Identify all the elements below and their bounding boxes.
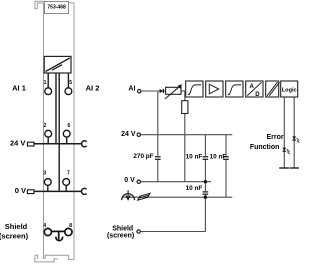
svg-text:8: 8 [69,223,72,229]
svg-text:Shield: Shield [5,222,28,231]
svg-text:Shield: Shield [112,226,133,233]
svg-text:24 V: 24 V [10,138,25,147]
svg-text:0 V: 0 V [15,186,26,195]
svg-text:5: 5 [69,80,72,86]
svg-text:AI 2: AI 2 [86,83,100,92]
svg-text:(screen): (screen) [107,233,134,240]
svg-text:3: 3 [43,171,46,177]
svg-text:7: 7 [67,171,70,177]
svg-text:A: A [250,84,255,90]
svg-text:24 V: 24 V [121,131,136,138]
svg-text:AI 1: AI 1 [12,83,26,92]
svg-text:1: 1 [44,80,47,86]
svg-text:D: D [255,92,260,98]
svg-text:10 nF: 10 nF [210,154,227,161]
svg-text:270 pF: 270 pF [133,153,153,160]
svg-text:(screen): (screen) [0,232,29,241]
svg-text:10 nF: 10 nF [186,185,203,192]
svg-text:AI: AI [128,86,135,93]
svg-text:753-468: 753-468 [47,5,66,11]
svg-text:6: 6 [68,123,71,129]
svg-text:Function: Function [250,144,280,151]
svg-text:Logic: Logic [282,88,297,94]
svg-text:10 nF: 10 nF [186,154,203,161]
svg-text:4: 4 [43,223,46,229]
svg-text:0 V: 0 V [124,177,135,184]
svg-text:Error: Error [266,134,283,141]
svg-text:2: 2 [44,123,47,129]
